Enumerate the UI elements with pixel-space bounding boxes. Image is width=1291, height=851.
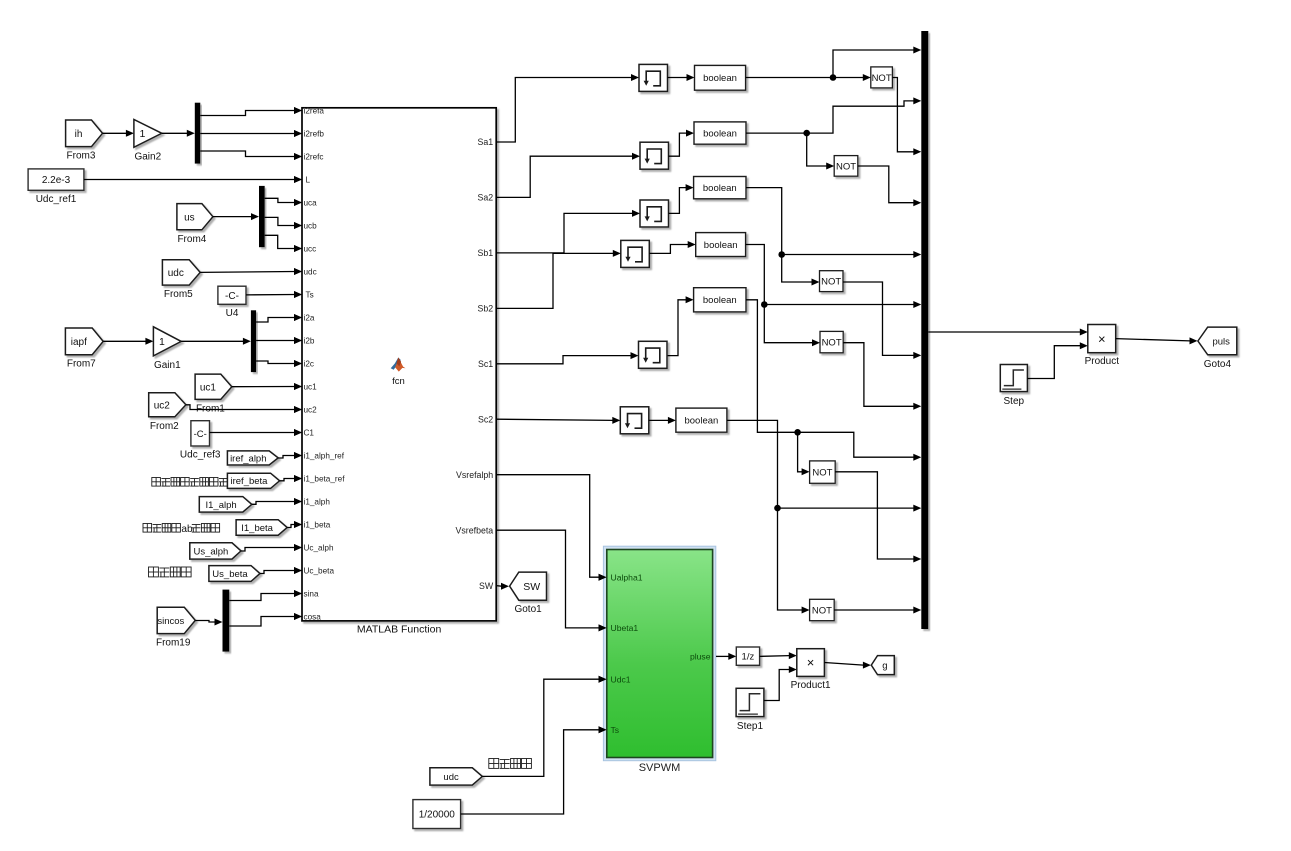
svg-text:1/z: 1/z	[742, 652, 755, 663]
svg-text:i1_alph_ref: i1_alph_ref	[304, 452, 345, 461]
wire From2 to port uc2	[186, 405, 295, 410]
From block Us_beta	[209, 566, 260, 582]
input port 20 Uc_alph	[294, 544, 302, 551]
wire Us_beta to port Uc_beta	[260, 571, 295, 574]
wire Demux2 out2 to ucb	[265, 217, 295, 225]
svg-text:pluse: pluse	[690, 652, 711, 662]
svg-text:ih: ih	[75, 129, 83, 140]
svg-text:Sb2: Sb2	[478, 304, 494, 314]
junction boolean6 branch	[774, 505, 781, 512]
svg-text:boolean: boolean	[703, 183, 737, 194]
input port 12 i2c	[294, 360, 302, 367]
svg-text:Us_beta: Us_beta	[212, 569, 248, 580]
junction boolean2 branch	[803, 130, 810, 137]
svg-text:1: 1	[159, 336, 165, 348]
svg-text:uca: uca	[304, 199, 318, 208]
svg-text:boolean: boolean	[703, 295, 737, 306]
svg-text:From4: From4	[177, 234, 206, 245]
annotation text 输出电流ab轴分量	[143, 524, 220, 536]
wire boolean6 to NOT6	[727, 420, 802, 610]
input port 18 i1_alph	[294, 498, 302, 505]
From block udc (bottom)	[430, 768, 482, 785]
From block From4: us	[177, 204, 213, 230]
logical operator NOT6	[810, 599, 835, 620]
From block From7: iapf	[65, 328, 103, 355]
data type conversion block boolean2	[694, 122, 746, 144]
From block From19: sincos	[157, 607, 195, 633]
svg-text:iref_alph: iref_alph	[230, 453, 266, 464]
svg-text:i1_alph: i1_alph	[304, 498, 331, 507]
memory block Memory3	[640, 200, 669, 227]
input port 15 C1	[294, 429, 302, 436]
wire NOT5 to Mux in11	[835, 472, 914, 559]
data type conversion block boolean6	[676, 408, 727, 432]
wire iref_beta to port i1_beta_ref	[280, 479, 295, 481]
wire SW to Goto1	[496, 585, 501, 588]
wire From19 to Mux4	[195, 621, 215, 623]
wire boolean5 branch to NOT5	[798, 432, 803, 472]
annotation text 直流电压	[489, 759, 532, 769]
svg-text:From3: From3	[67, 151, 96, 162]
svg-text:Product1: Product1	[791, 680, 831, 691]
input port 7 ucc	[294, 245, 302, 252]
input port 22 sina	[294, 590, 302, 597]
wire Mux4 out2 to cosa	[229, 617, 294, 627]
wire Demux3 out3 to i2c	[256, 361, 294, 364]
From block Us_alph	[190, 543, 241, 559]
From block iref_alph	[227, 451, 278, 465]
svg-text:i2refb: i2refb	[304, 130, 325, 139]
svg-text:1/20000: 1/20000	[419, 810, 456, 821]
svg-text:i2refc: i2refc	[304, 153, 324, 162]
product block Product	[1088, 325, 1116, 353]
From block I1_alph	[199, 497, 252, 512]
memory block Memory4	[621, 240, 650, 267]
wire Mux4 out1 to sina	[229, 594, 294, 601]
svg-text:×: ×	[1098, 331, 1106, 346]
svg-text:1: 1	[139, 128, 145, 140]
input port 2 i2refb	[294, 130, 302, 137]
wire From7 to Gain1	[103, 340, 146, 342]
svg-text:sincos: sincos	[157, 616, 184, 627]
svg-text:ucc: ucc	[304, 245, 317, 254]
wire Memory4 to boolean4	[649, 245, 688, 254]
svg-text:ucb: ucb	[304, 222, 318, 231]
svg-text:g: g	[882, 661, 887, 672]
input port 17 i1_beta_ref	[294, 475, 302, 482]
goto block Goto1: SW	[510, 572, 547, 600]
wire udc to SVPWM Udc1	[482, 679, 599, 776]
wire Memory2 to boolean2	[669, 133, 687, 156]
svg-text:ab: ab	[181, 524, 193, 535]
input port 19 i1_beta	[294, 521, 302, 528]
svg-text:Uc_beta: Uc_beta	[304, 567, 335, 576]
constant block 1/20000	[413, 800, 461, 829]
logical operator NOT5	[810, 461, 836, 483]
svg-text:uc2: uc2	[154, 400, 171, 411]
SVPWM input port Ubeta1	[599, 624, 607, 631]
svg-text:I1_alph: I1_alph	[206, 500, 237, 511]
wire Vsrefalph to SVPWM Ualpha1	[496, 475, 599, 578]
demux Demux3	[251, 310, 256, 372]
svg-text:uc1: uc1	[200, 382, 217, 393]
wire boolean5 to Mux in9	[746, 300, 914, 457]
svg-text:NOT: NOT	[822, 338, 842, 349]
wire Vsrefbeta to SVPWM Ubeta1	[496, 530, 599, 628]
svg-text:Sb1: Sb1	[478, 248, 494, 258]
From block From1: uc1	[195, 374, 232, 399]
input port 4 L	[294, 176, 302, 183]
wire boolean3 branch to NOT3	[782, 255, 812, 283]
input port 13 uc1	[294, 383, 302, 390]
data type conversion block boolean3	[694, 177, 746, 199]
svg-text:-C-: -C-	[194, 429, 207, 440]
svg-text:Us_alph: Us_alph	[193, 546, 228, 557]
svg-text:uc1: uc1	[304, 383, 318, 392]
constant block Udc_ref3: -C-	[191, 421, 210, 446]
input port 14 uc2	[294, 406, 302, 413]
svg-text:Product: Product	[1085, 356, 1120, 367]
svg-text:From2: From2	[150, 421, 179, 432]
svg-text:puls: puls	[1212, 336, 1230, 347]
input port 10 i2a	[294, 314, 302, 321]
input port 11 i2b	[294, 337, 302, 344]
data type conversion block boolean1	[695, 65, 746, 90]
wire Us_alph to port Uc_alph	[241, 548, 295, 552]
svg-text:iref_beta: iref_beta	[231, 476, 269, 487]
constant block U4: -C-	[218, 286, 246, 304]
svg-text:Vsrefbeta: Vsrefbeta	[456, 525, 494, 535]
input port 21 Uc_beta	[294, 567, 302, 574]
mux Mux4	[223, 590, 230, 652]
svg-text:boolean: boolean	[703, 129, 737, 140]
wire Demux3 out1 to i2a	[256, 318, 294, 323]
input port 5 uca	[294, 199, 302, 206]
demux Demux2	[259, 186, 265, 247]
From block From5: udc	[162, 260, 200, 285]
gain block Gain1	[153, 327, 181, 356]
svg-text:C1: C1	[304, 429, 315, 438]
junction boolean5 branch	[794, 429, 801, 436]
wire I1_beta to port i1_beta	[287, 525, 294, 528]
goto block Goto4: puls	[1198, 327, 1237, 355]
svg-text:From19: From19	[156, 638, 191, 649]
SVPWM input port Udc1	[599, 676, 607, 683]
svg-text:From7: From7	[67, 359, 96, 370]
step block Step	[1000, 365, 1027, 392]
svg-text:Sa1: Sa1	[478, 137, 494, 147]
svg-text:×: ×	[807, 655, 815, 670]
wire boolean3 to Mux in5	[746, 188, 914, 255]
svg-text:Goto4: Goto4	[1204, 359, 1232, 370]
svg-text:boolean: boolean	[703, 73, 737, 84]
svg-text:sina: sina	[304, 590, 319, 599]
SVPWM subsystem block	[603, 546, 715, 761]
wire Memory6 to boolean6	[649, 419, 669, 421]
svg-text:udc: udc	[168, 268, 184, 279]
svg-text:NOT: NOT	[812, 605, 832, 616]
svg-text:i1_beta_ref: i1_beta_ref	[304, 475, 346, 484]
gain block Gain2	[134, 119, 162, 147]
constant block Udc_ref1: 2.2e-3	[28, 169, 84, 190]
svg-text:i2a: i2a	[304, 314, 315, 323]
svg-text:Udc1: Udc1	[611, 675, 631, 685]
wire SVPWM pluse to Unit Delay	[716, 655, 729, 657]
wire boolean6 branch to Mux in10	[778, 507, 914, 509]
wire Demux2 out3 to ucc	[265, 235, 295, 248]
input port 16 i1_alph_ref	[294, 452, 302, 459]
input port 1 i2refa	[294, 107, 302, 114]
svg-text:Udc_ref1: Udc_ref1	[36, 194, 77, 205]
svg-text:2.2e-3: 2.2e-3	[42, 175, 71, 186]
From block From2: uc2	[149, 393, 186, 417]
wire Sa1 to Memory1	[496, 78, 631, 143]
svg-text:SW: SW	[523, 581, 540, 593]
svg-text:Vsrefalph: Vsrefalph	[456, 470, 493, 480]
svg-text:Ts: Ts	[611, 725, 620, 735]
svg-text:Sc1: Sc1	[478, 359, 493, 369]
memory block Memory5	[639, 341, 668, 368]
From block iref_beta	[227, 473, 279, 488]
svg-text:I1_beta: I1_beta	[241, 523, 273, 534]
demux Demux1	[195, 103, 201, 164]
svg-text:i2b: i2b	[304, 337, 315, 346]
wire boolean2 to Mux in2	[746, 101, 914, 133]
wire Gain2 to Demux1	[162, 132, 188, 134]
wire Demux1 out3 to i2refc	[200, 151, 294, 157]
wire boolean1 to NOT1	[746, 77, 864, 79]
svg-text:Sc2: Sc2	[478, 414, 493, 424]
wire 1/20000 to SVPWM Ts	[461, 730, 599, 814]
wire NOT3 to Mux in7	[843, 282, 914, 355]
svg-text:Sa2: Sa2	[478, 193, 494, 203]
wire Product to Goto4	[1116, 339, 1190, 341]
wire Memory5 to boolean5	[668, 300, 687, 356]
mux Mux big	[921, 31, 928, 629]
junction boolean4 branch	[761, 301, 768, 308]
svg-text:cosa: cosa	[304, 613, 322, 622]
wire Gain1 to Demux3	[181, 340, 243, 342]
svg-text:L: L	[306, 176, 311, 185]
svg-text:From5: From5	[164, 289, 193, 300]
unit delay block 1/z	[736, 647, 759, 665]
svg-text:us: us	[184, 212, 195, 223]
From block I1_beta	[236, 520, 287, 536]
wire Memory3 to boolean3	[669, 188, 687, 214]
svg-text:U4: U4	[226, 308, 239, 319]
product block Product1	[797, 649, 825, 677]
wire NOT6 to Mux in12	[834, 609, 914, 611]
input port 23 cosa	[294, 613, 302, 620]
svg-text:Udc_ref3: Udc_ref3	[180, 450, 221, 461]
svg-text:i1_beta: i1_beta	[304, 521, 331, 530]
wire Demux3 out2 to i2b	[256, 340, 294, 342]
annotation text 负载电压	[149, 567, 192, 577]
svg-text:-C-: -C-	[225, 291, 239, 302]
wire boolean4 to NOT4	[746, 245, 813, 343]
From block From3: ih	[66, 120, 103, 147]
wire Udc_ref3 to port C1	[210, 432, 295, 434]
input port 8 udc	[294, 268, 302, 275]
memory block Memory1	[639, 64, 668, 91]
wire I1_alph to port i1_alph	[252, 502, 295, 505]
svg-text:iapf: iapf	[71, 337, 87, 348]
svg-text:boolean: boolean	[704, 240, 738, 251]
wire boolean1 branch to Mux in1	[833, 50, 914, 78]
svg-text:SVPWM: SVPWM	[639, 762, 681, 774]
step block Step1	[736, 688, 764, 716]
wire boolean2 branch to NOT2	[807, 133, 827, 166]
memory block Memory2	[640, 142, 669, 169]
wire From4 to Demux2	[213, 216, 252, 218]
MATLAB Function block U: fcn	[302, 108, 496, 621]
wire Product1 to Goto g	[824, 663, 863, 666]
SVPWM input port Ualpha1	[599, 574, 607, 581]
wire From5 to port udc	[200, 271, 294, 274]
svg-text:Gain2: Gain2	[134, 151, 161, 162]
wire Mux to Product in1	[928, 331, 1080, 333]
wire Demux1 out2 to i2refb	[200, 133, 294, 135]
svg-text:MATLAB Function: MATLAB Function	[357, 624, 442, 636]
wire Sc2 to Memory6	[496, 419, 613, 420]
junction boolean1 branch	[830, 74, 837, 81]
svg-text:i2c: i2c	[304, 360, 314, 369]
logical operator NOT2	[834, 156, 858, 177]
wire From3 to Gain2	[103, 132, 127, 134]
input port 6 ucb	[294, 222, 302, 229]
wire Sb2 to Memory4	[496, 253, 613, 308]
svg-text:Ualpha1: Ualpha1	[611, 573, 643, 583]
memory block Memory6	[620, 407, 649, 434]
wire Udc_ref1 to port L	[84, 179, 295, 181]
svg-text:Step1: Step1	[737, 721, 764, 732]
logical operator NOT4	[820, 331, 843, 352]
data type conversion block boolean4	[696, 233, 746, 257]
annotation text 输出电流的参考值	[152, 478, 228, 487]
wire iref_alph to port i1_alph_ref	[278, 456, 294, 459]
svg-text:NOT: NOT	[836, 161, 856, 172]
input port 3 i2refc	[294, 153, 302, 160]
svg-text:SW: SW	[479, 581, 494, 591]
wire Demux1 out1 to i2refa	[200, 111, 294, 116]
svg-text:NOT: NOT	[812, 468, 832, 479]
data type conversion block boolean5	[694, 288, 746, 312]
svg-text:fcn: fcn	[392, 376, 405, 387]
svg-text:Step: Step	[1004, 396, 1025, 407]
svg-text:i2refa: i2refa	[304, 107, 325, 116]
wire U4 to port Ts	[246, 294, 295, 296]
svg-text:uc2: uc2	[304, 406, 318, 415]
wire boolean4 branch to Mux in6	[764, 304, 914, 306]
svg-text:NOT: NOT	[821, 277, 841, 288]
wire Sc1 to Memory5	[496, 356, 631, 364]
MATLAB fcn logo icon	[391, 358, 406, 372]
goto block Goto: g	[871, 656, 894, 675]
junction boolean3 branch	[778, 251, 785, 258]
SVPWM input port Ts	[599, 726, 607, 733]
wire NOT1 to Mux in3	[892, 78, 913, 152]
input port 9 Ts	[294, 291, 302, 298]
wire Sb1 to Memory3	[496, 213, 632, 253]
svg-text:udc: udc	[443, 772, 459, 783]
svg-text:Uc_alph: Uc_alph	[304, 544, 334, 553]
logical operator NOT3	[820, 271, 844, 292]
wire Unit Delay to Product1 in1	[760, 655, 790, 658]
logical operator NOT1	[871, 67, 893, 88]
svg-text:Ubeta1: Ubeta1	[611, 623, 639, 633]
svg-text:Gain1: Gain1	[154, 360, 181, 371]
wire Sa2 to Memory2	[496, 156, 632, 197]
wire From1 to port uc1	[232, 386, 295, 388]
wire NOT2 to Mux in4	[858, 166, 914, 203]
wire Demux2 out1 to uca	[265, 198, 295, 202]
wire Step1 to Product1 in2	[764, 670, 789, 701]
svg-text:boolean: boolean	[684, 416, 718, 427]
svg-text:Ts: Ts	[306, 291, 314, 300]
wire Memory1 to boolean1	[668, 77, 688, 79]
svg-text:udc: udc	[304, 268, 317, 277]
wire Step to Product in2	[1027, 346, 1080, 379]
svg-text:NOT: NOT	[872, 73, 892, 84]
svg-text:Goto1: Goto1	[514, 604, 542, 615]
wire NOT4 to Mux in8	[843, 343, 914, 407]
